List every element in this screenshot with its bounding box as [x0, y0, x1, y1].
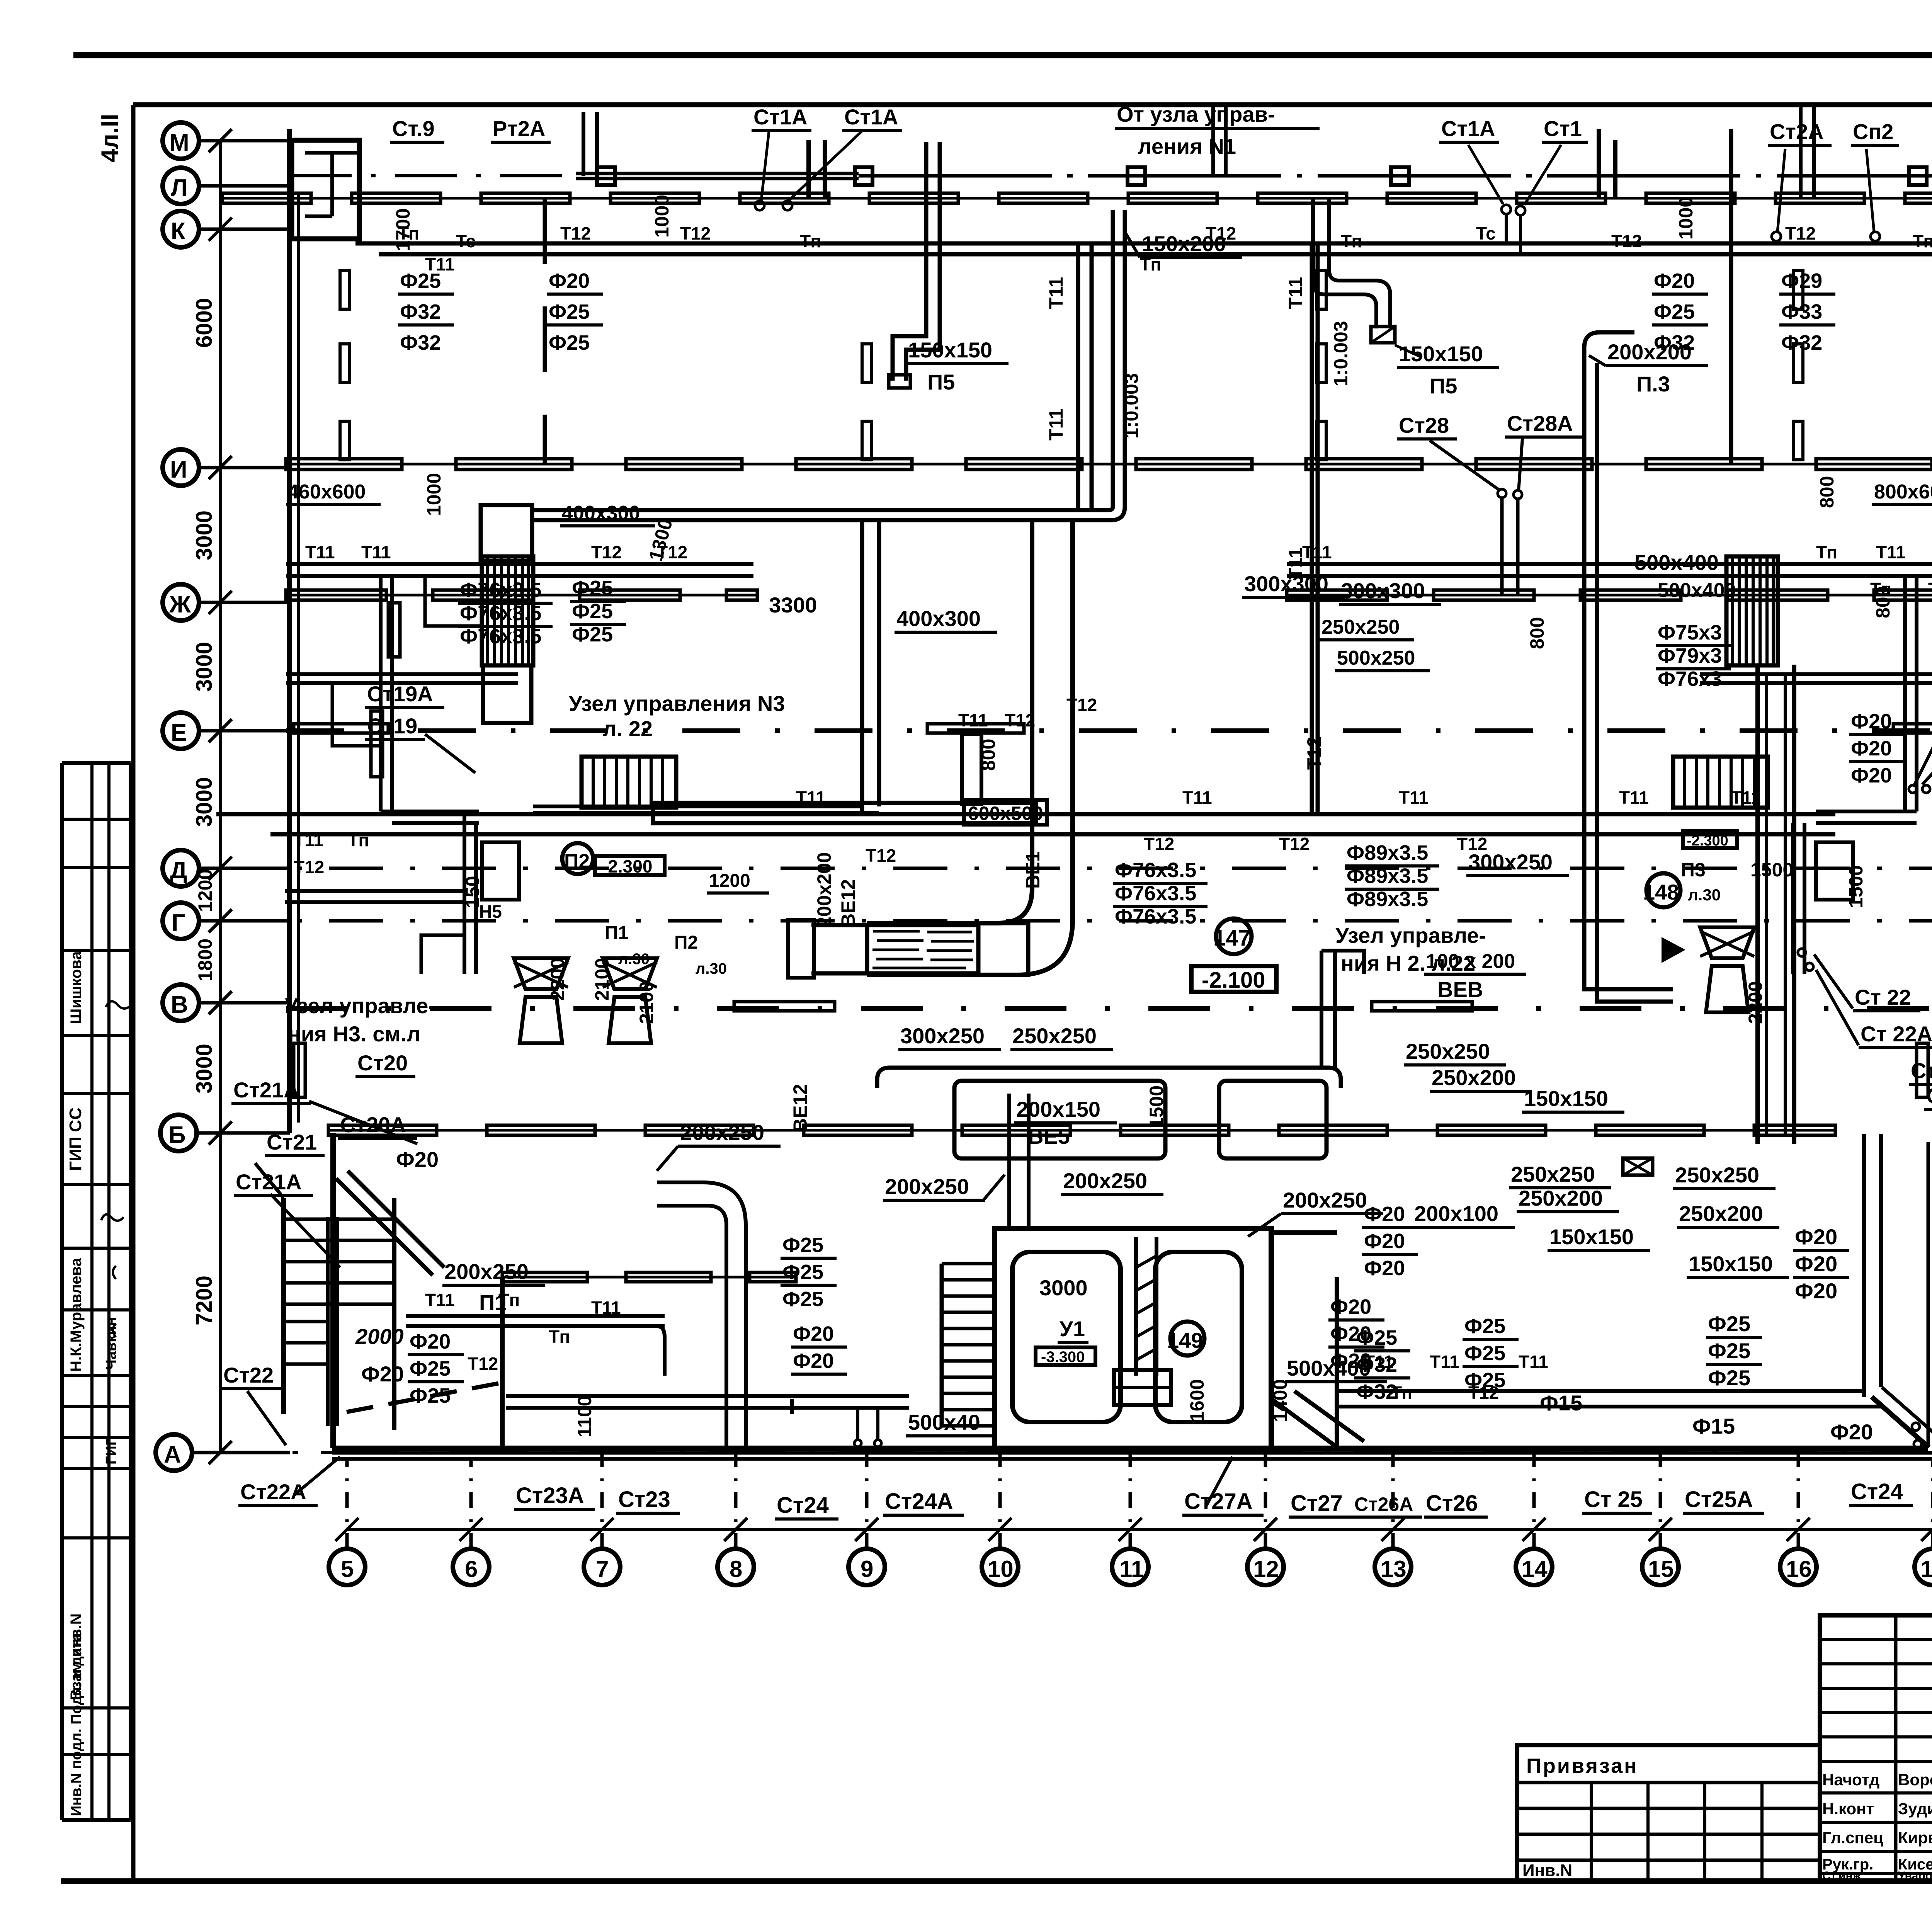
svg-text:Ст25А: Ст25А	[1685, 1487, 1753, 1512]
svg-text:Д: Д	[170, 857, 187, 884]
svg-text:Инв.N: Инв.N	[1522, 1861, 1572, 1880]
svg-text:Ф25: Ф25	[549, 331, 590, 354]
svg-text:Тп: Тп	[1341, 231, 1362, 251]
mid-left stair	[582, 757, 676, 808]
svg-text:150x150: 150x150	[908, 338, 992, 362]
svg-text:ВЕ12: ВЕ12	[837, 879, 859, 927]
svg-text:1100: 1100	[574, 1396, 595, 1437]
svg-text:Т11: Т11	[1430, 1352, 1459, 1372]
svg-text:1:0.003: 1:0.003	[1121, 373, 1142, 439]
svg-text:П3: П3	[1681, 859, 1706, 881]
lower duct run with two boxes	[877, 1068, 1341, 1088]
svg-text:147: 147	[1213, 925, 1251, 951]
П5 right duct elbow + grille	[1313, 198, 1376, 328]
svg-text:Ф25: Ф25	[1708, 1366, 1750, 1390]
svg-text:Ф29: Ф29	[1781, 269, 1822, 293]
svg-text:Ст 22: Ст 22	[1855, 985, 1911, 1009]
svg-text:Ф20: Ф20	[793, 1322, 834, 1345]
svg-text:2100: 2100	[591, 958, 613, 1001]
svg-text:Ст21: Ст21	[267, 1130, 317, 1154]
svg-text:Узел управления N3: Узел управления N3	[569, 691, 785, 716]
svg-text:250x250: 250x250	[1012, 1024, 1097, 1048]
svg-text:ния Н3. см.л: ния Н3. см.л	[288, 1022, 420, 1046]
bottom outer wall	[332, 1451, 1932, 1455]
svg-text:8: 8	[730, 1556, 742, 1582]
svg-text:Т12: Т12	[1206, 223, 1236, 243]
bottom-left diagonal pipes	[336, 1179, 433, 1275]
svg-text:500x250: 500x250	[1337, 647, 1415, 669]
svg-text:3000: 3000	[192, 642, 217, 692]
svg-text:Начотд: Начотд	[1822, 1771, 1879, 1789]
top mid-left wall stub at x=2090	[806, 140, 811, 198]
svg-text:Т11: Т11	[294, 830, 323, 850]
svg-text:Ст2А: Ст2А	[1770, 119, 1823, 144]
svg-text:Ст27А: Ст27А	[1184, 1489, 1253, 1514]
svg-text:1800: 1800	[194, 939, 216, 981]
svg-text:К: К	[171, 218, 185, 245]
svg-text:Б: Б	[168, 1122, 186, 1148]
right zone pipes row Zh	[1287, 562, 1932, 566]
svg-text:400x300: 400x300	[896, 606, 981, 631]
bottom central stair	[940, 1264, 944, 1427]
left lower outer wall continuation	[330, 1133, 336, 1448]
svg-text:Т12: Т12	[1005, 710, 1035, 730]
svg-text:150x150: 150x150	[1524, 1086, 1608, 1111]
pipe tags	[294, 223, 1932, 1403]
svg-text:Т12: Т12	[591, 542, 622, 562]
svg-text:1500: 1500	[1750, 859, 1793, 881]
left radiator hatched block	[481, 505, 532, 561]
vertical pipe risers center (col 11-12)	[1076, 243, 1080, 510]
svg-text:5: 5	[341, 1556, 354, 1582]
svg-text:Ст23: Ст23	[618, 1487, 670, 1512]
svg-text:Кирвалова: Кирвалова	[1898, 1829, 1932, 1847]
right mid interior walls	[1729, 129, 1733, 464]
svg-text:Ф20: Ф20	[1795, 1225, 1837, 1249]
inner top frame line	[133, 102, 1932, 107]
svg-text:ВЕ12: ВЕ12	[789, 1084, 811, 1132]
svg-text:Ф20: Ф20	[1654, 269, 1695, 293]
level mark boxes	[1191, 966, 1276, 992]
svg-text:100 x 200: 100 x 200	[1426, 950, 1515, 973]
svg-text:10: 10	[988, 1556, 1014, 1582]
svg-text:Т11: Т11	[1731, 788, 1761, 808]
right vertical duct P3	[1582, 348, 1587, 951]
svg-text:Тп: Тп	[498, 1290, 520, 1310]
svg-text:1000: 1000	[651, 195, 673, 238]
svg-text:Тп: Тп	[348, 830, 369, 850]
svg-text:Тс: Тс	[456, 231, 476, 251]
svg-text:Ф76x3.5: Ф76x3.5	[460, 602, 541, 625]
svg-text:Т12: Т12	[294, 857, 324, 877]
svg-text:Ф25: Ф25	[572, 623, 613, 646]
svg-text:Ст20: Ст20	[357, 1051, 408, 1075]
svg-text:Е: Е	[171, 720, 187, 746]
svg-text:П5: П5	[1430, 374, 1457, 398]
svg-text:Ф20: Ф20	[1364, 1203, 1405, 1226]
central vertical duct below uzel N2 to lower boxes	[1320, 951, 1323, 1068]
svg-text:7: 7	[596, 1556, 609, 1582]
svg-text:Ф20: Ф20	[549, 269, 590, 293]
svg-text:Ф32: Ф32	[1356, 1353, 1397, 1376]
svg-text:1200: 1200	[194, 869, 216, 912]
top right wall stubs	[1597, 129, 1601, 198]
svg-text:150x150: 150x150	[1549, 1225, 1634, 1249]
svg-text:2200: 2200	[1745, 981, 1766, 1024]
svg-text:1000: 1000	[423, 473, 445, 516]
svg-text:Ст24: Ст24	[777, 1493, 829, 1518]
svg-text:300x300: 300x300	[1341, 578, 1425, 603]
svg-text:Т11: Т11	[1302, 542, 1332, 562]
svg-text:800: 800	[1526, 617, 1548, 649]
left zone connecting steps	[332, 683, 381, 746]
svg-text:Ф20: Ф20	[1364, 1230, 1405, 1253]
bottom-left stair block	[281, 1198, 286, 1414]
svg-text:400x300: 400x300	[562, 502, 640, 524]
svg-text:11: 11	[1119, 1556, 1144, 1582]
svg-text:200x250: 200x250	[444, 1259, 529, 1284]
left zone verticals	[379, 576, 383, 811]
Ст28 riser pipes	[1498, 489, 1506, 498]
svg-text:Т12: Т12	[468, 1354, 498, 1374]
svg-text:300x300: 300x300	[1244, 572, 1328, 596]
svg-text:17: 17	[1920, 1556, 1932, 1582]
svg-text:Тп: Тп	[1816, 542, 1837, 562]
svg-text:Ф25: Ф25	[782, 1260, 823, 1284]
svg-text:Ст24: Ст24	[1851, 1479, 1903, 1504]
svg-text:Ф89x3.5: Ф89x3.5	[1347, 841, 1428, 864]
svg-text:Ф32: Ф32	[400, 300, 441, 323]
svg-text:Ст.инж: Ст.инж	[1822, 1869, 1861, 1882]
svg-text:149: 149	[1167, 1328, 1203, 1352]
svg-text:Ст19: Ст19	[367, 714, 417, 738]
svg-text:Ст1А: Ст1А	[844, 105, 898, 129]
svg-text:ВЕ5: ВЕ5	[1028, 1124, 1070, 1148]
svg-text:Т11: Т11	[1182, 788, 1212, 808]
room number circles	[1216, 919, 1252, 954]
svg-text:800: 800	[1872, 586, 1894, 618]
right zone verticals	[1903, 576, 1907, 811]
svg-text:Ф20: Ф20	[1330, 1295, 1371, 1318]
row Zh walls (left & right blocks)	[286, 594, 757, 597]
bottom centre ducts	[790, 1399, 794, 1414]
svg-text:Ф25: Ф25	[1708, 1339, 1750, 1363]
svg-text:-2.100: -2.100	[1202, 968, 1265, 993]
svg-text:Ф20: Ф20	[396, 1147, 439, 1172]
right stair	[1673, 757, 1768, 808]
svg-text:500x400: 500x400	[1634, 550, 1719, 575]
svg-text:Т4: Т4	[1928, 579, 1932, 599]
big elbow duct down to heat exchanger	[867, 744, 1032, 923]
svg-text:200x250: 200x250	[1063, 1169, 1147, 1193]
svg-text:Тп: Тп	[1913, 231, 1932, 251]
top pipe pair under top wall	[355, 242, 1932, 246]
svg-text:Узел управле-: Узел управле-	[1335, 923, 1486, 947]
svg-text:Ф76x3.5: Ф76x3.5	[1115, 859, 1196, 882]
corner chamfer	[1872, 1397, 1929, 1448]
svg-text:Ст27: Ст27	[1291, 1491, 1343, 1516]
svg-text:250x250: 250x250	[1511, 1162, 1595, 1186]
svg-text:Т12: Т12	[1144, 834, 1174, 854]
left pumps	[514, 958, 568, 1043]
svg-text:3300: 3300	[769, 593, 817, 617]
bottom pipes left	[406, 1314, 665, 1318]
svg-text:Ст1: Ст1	[1544, 116, 1582, 141]
svg-text:Ф75x3: Ф75x3	[1658, 621, 1722, 644]
svg-text:Т11: Т11	[1045, 408, 1067, 441]
svg-text:4л.II: 4л.II	[97, 114, 123, 162]
top mid-left labels	[286, 481, 1932, 671]
svg-text:250x200: 250x200	[1519, 1186, 1603, 1210]
svg-text:6: 6	[465, 1556, 478, 1582]
svg-text:3000: 3000	[192, 1044, 217, 1094]
risers from top frame to main	[582, 112, 585, 176]
svg-text:Ф20: Ф20	[1851, 737, 1892, 760]
svg-text:В: В	[171, 992, 188, 1018]
right zone ducts near 148	[1584, 951, 1673, 989]
svg-text:200x250: 200x250	[885, 1174, 969, 1199]
svg-text:Ф25: Ф25	[410, 1357, 451, 1380]
svg-text:л. 22: л. 22	[603, 716, 653, 741]
svg-text:Ж: Ж	[169, 591, 191, 618]
svg-text:Ст28А: Ст28А	[1507, 411, 1573, 435]
svg-text:Ф76x3.5: Ф76x3.5	[1115, 905, 1196, 928]
rotated dims	[392, 195, 1894, 1437]
svg-text:Ф33: Ф33	[1781, 300, 1822, 323]
svg-text:Ст21А: Ст21А	[236, 1170, 302, 1194]
signature table	[1820, 1615, 1932, 1881]
central pipe pair	[216, 812, 1835, 816]
duct P5 vertical at col 9 top	[924, 142, 929, 325]
svg-text:Ф25: Ф25	[1464, 1315, 1505, 1338]
svg-text:Уварова: Уварова	[1898, 1869, 1932, 1882]
svg-text:Ф25: Ф25	[782, 1233, 823, 1257]
svg-text:Т11: Т11	[1399, 788, 1429, 808]
svg-text:6000: 6000	[192, 298, 217, 348]
svg-text:Ф15: Ф15	[1692, 1414, 1735, 1438]
svg-text:-2.300: -2.300	[1687, 833, 1728, 849]
svg-text:Ф25: Ф25	[549, 300, 590, 323]
row V dash wall	[286, 1006, 1932, 1011]
svg-text:200x250: 200x250	[1283, 1188, 1367, 1212]
svg-text:Ф25: Ф25	[1654, 300, 1695, 323]
svg-text:Т11: Т11	[1619, 788, 1649, 808]
svg-text:Ст1А: Ст1А	[1441, 116, 1495, 141]
svg-text:Ф25: Ф25	[572, 600, 613, 623]
svg-text:1600: 1600	[1186, 1379, 1208, 1422]
svg-text:Т12: Т12	[866, 845, 896, 866]
svg-text:800: 800	[1816, 476, 1838, 508]
svg-text:Шишкова: Шишкова	[68, 951, 85, 1024]
svg-text:Т11: Т11	[796, 788, 826, 808]
left outer wall	[287, 129, 292, 1133]
svg-text:300x250: 300x250	[900, 1024, 985, 1048]
top frame line	[73, 52, 1932, 58]
svg-text:250x250: 250x250	[1321, 616, 1400, 638]
svg-text:Т12: Т12	[1303, 737, 1325, 770]
svg-text:200x200: 200x200	[813, 852, 835, 927]
svg-text:П1: П1	[605, 923, 628, 943]
svg-text:Ф20: Ф20	[1795, 1252, 1837, 1276]
svg-text:Ф20: Ф20	[1364, 1257, 1405, 1280]
svg-text:У1: У1	[1060, 1317, 1085, 1341]
svg-text:Ф25: Ф25	[1356, 1326, 1397, 1349]
svg-text:Ф25: Ф25	[400, 269, 441, 293]
svg-text:Ст28: Ст28	[1399, 413, 1449, 437]
svg-text:460x600: 460x600	[287, 481, 366, 503]
svg-text:800: 800	[978, 739, 999, 771]
svg-text:Воронцева: Воронцева	[1898, 1771, 1932, 1789]
svg-text:2100: 2100	[636, 981, 657, 1024]
svg-text:3000: 3000	[192, 777, 217, 827]
svg-text:800x600: 800x600	[1874, 481, 1932, 503]
svg-text:Т11: Т11	[1519, 1352, 1548, 1372]
svg-text:И: И	[170, 456, 187, 483]
svg-text:Ст 22А: Ст 22А	[1926, 1084, 1932, 1108]
svg-text:Ф32: Ф32	[1654, 331, 1695, 354]
svg-text:Сп2: Сп2	[1853, 119, 1893, 144]
svg-text:ВЕВ: ВЕВ	[1437, 977, 1483, 1002]
svg-text:1400: 1400	[1269, 1379, 1291, 1422]
svg-text:150x150: 150x150	[1689, 1252, 1773, 1276]
svg-text:Ф89x3.5: Ф89x3.5	[1347, 888, 1428, 911]
svg-text:Т12: Т12	[1279, 834, 1310, 854]
svg-text:ГИП: ГИП	[103, 1435, 119, 1465]
svg-text:200x150: 200x150	[1016, 1097, 1100, 1121]
svg-text:М: М	[169, 129, 189, 156]
svg-text:Ф20: Ф20	[410, 1330, 451, 1353]
svg-text:Ф25: Ф25	[1708, 1311, 1750, 1336]
svg-text:Ф20: Ф20	[1830, 1420, 1873, 1444]
svg-text:Ф20: Ф20	[1851, 710, 1892, 733]
svg-text:Т11: Т11	[591, 1298, 621, 1318]
svg-text:Т11: Т11	[958, 710, 988, 730]
svg-text:Ф20: Ф20	[361, 1362, 404, 1386]
svg-text:Ф25: Ф25	[782, 1288, 823, 1311]
svg-text:Ф25: Ф25	[1464, 1342, 1505, 1365]
svg-text:Ф32: Ф32	[1781, 331, 1822, 354]
svg-text:7200: 7200	[192, 1276, 217, 1325]
row B wall band	[328, 1129, 1835, 1132]
svg-text:500x40: 500x40	[908, 1410, 980, 1434]
row A dash-dot extension	[192, 1451, 1932, 1454]
svg-text:14: 14	[1522, 1556, 1548, 1582]
svg-text:Ф25: Ф25	[1464, 1369, 1505, 1392]
svg-text:Т12: Т12	[1785, 223, 1816, 243]
left attach box	[1517, 1745, 1820, 1881]
stav leaders with valve circles	[761, 131, 769, 201]
svg-text:Т12: Т12	[680, 223, 711, 243]
svg-text:Ф32: Ф32	[400, 331, 441, 354]
svg-text:200x100: 200x100	[1414, 1201, 1498, 1226]
svg-text:Ф76x3: Ф76x3	[1658, 667, 1722, 691]
flow triangle	[1662, 937, 1685, 963]
svg-text:1500: 1500	[1845, 865, 1867, 908]
svg-text:Чавкин: Чавкин	[103, 1317, 119, 1370]
svg-text:Ст.9: Ст.9	[392, 116, 435, 141]
diameter stacks	[398, 269, 1905, 1407]
svg-text:250x200: 250x200	[1432, 1065, 1516, 1090]
svg-text:148: 148	[1643, 880, 1679, 904]
svg-text:Г: Г	[172, 910, 185, 936]
big central duct 600x500	[653, 803, 1036, 823]
rows D and G partial grid	[216, 867, 1932, 870]
svg-text:А: А	[164, 1441, 181, 1468]
short column dashes above row I	[340, 270, 1803, 460]
svg-text:Зудина: Зудина	[1898, 1800, 1932, 1818]
bottom central room	[995, 1228, 1271, 1451]
svg-text:Т12: Т12	[1066, 695, 1097, 715]
svg-text:200x250: 200x250	[680, 1120, 764, 1145]
svg-text:Ст23А: Ст23А	[516, 1483, 584, 1508]
row E dash wall	[286, 728, 1932, 733]
svg-text:Ст 22: Ст 22	[1911, 1058, 1932, 1083]
svg-text:Ф25: Ф25	[572, 577, 613, 600]
row I wall band	[286, 463, 1932, 466]
right corner pipes	[1862, 1134, 1866, 1397]
svg-text:500x400: 500x400	[1658, 579, 1736, 602]
duct 150x200 long vertical col 10	[1111, 210, 1115, 507]
svg-text:1200: 1200	[709, 871, 750, 891]
svg-text:Ф89x3.5: Ф89x3.5	[1347, 864, 1428, 888]
svg-text:Тп: Тп	[800, 231, 821, 251]
svg-text:Т11: Т11	[305, 542, 335, 562]
bottom central duct risers	[1007, 1094, 1011, 1228]
svg-text:ления N1: ления N1	[1138, 134, 1236, 158]
svg-text:Т11: Т11	[1876, 542, 1906, 562]
svg-text:ВЕ1: ВЕ1	[1022, 851, 1044, 889]
svg-text:Н.конт: Н.конт	[1822, 1800, 1874, 1818]
left zone pipes row Zh	[286, 562, 753, 566]
svg-text:Ф79x3: Ф79x3	[1658, 644, 1722, 667]
svg-text:Узел управле-: Узел управле-	[285, 993, 435, 1018]
svg-text:250x250: 250x250	[1406, 1039, 1490, 1063]
svg-text:Привязан: Привязан	[1526, 1754, 1638, 1778]
svg-text:13: 13	[1381, 1556, 1406, 1582]
svg-text:150x150: 150x150	[1399, 342, 1483, 366]
svg-text:Ф20: Ф20	[1851, 764, 1892, 787]
svg-text:Ф32: Ф32	[1356, 1380, 1397, 1403]
bottom pipes right	[1337, 1389, 1864, 1393]
svg-text:Ф25: Ф25	[410, 1384, 451, 1407]
svg-text:15: 15	[1648, 1556, 1674, 1582]
svg-text:150: 150	[462, 876, 483, 908]
svg-text:12: 12	[1253, 1556, 1279, 1582]
big right vertical duct	[1755, 665, 1760, 1144]
svg-text:П5: П5	[927, 370, 955, 394]
svg-text:Гл.спец: Гл.спец	[1822, 1829, 1883, 1847]
svg-text:Тс: Тс	[1476, 223, 1496, 243]
svg-text:Т12: Т12	[560, 223, 591, 243]
top outer wall band with window gaps	[222, 197, 1932, 200]
svg-text:Т11: Т11	[1285, 277, 1306, 309]
svg-text:Ст1А: Ст1А	[753, 105, 807, 129]
svg-text:ГИП СС: ГИП СС	[66, 1107, 85, 1171]
svg-text:250x250: 250x250	[1675, 1163, 1759, 1187]
bottom stack labels	[514, 1457, 1932, 1519]
svg-text:Ф20: Ф20	[793, 1349, 834, 1373]
svg-text:1500: 1500	[1146, 1085, 1167, 1128]
svg-text:Тп: Тп	[549, 1327, 570, 1347]
svg-text:Т12: Т12	[1611, 231, 1642, 251]
bottom interior walls	[502, 1276, 796, 1279]
svg-text:Инв.N подл. Подп. и дата: Инв.N подл. Подп. и дата	[68, 1633, 85, 1816]
svg-text:Ф20: Ф20	[1795, 1279, 1837, 1303]
svg-text:Ф15: Ф15	[1540, 1391, 1582, 1415]
svg-text:1000: 1000	[1675, 197, 1697, 240]
svg-text:Ст26А: Ст26А	[1354, 1493, 1413, 1515]
svg-text:Ст22: Ст22	[223, 1363, 274, 1387]
